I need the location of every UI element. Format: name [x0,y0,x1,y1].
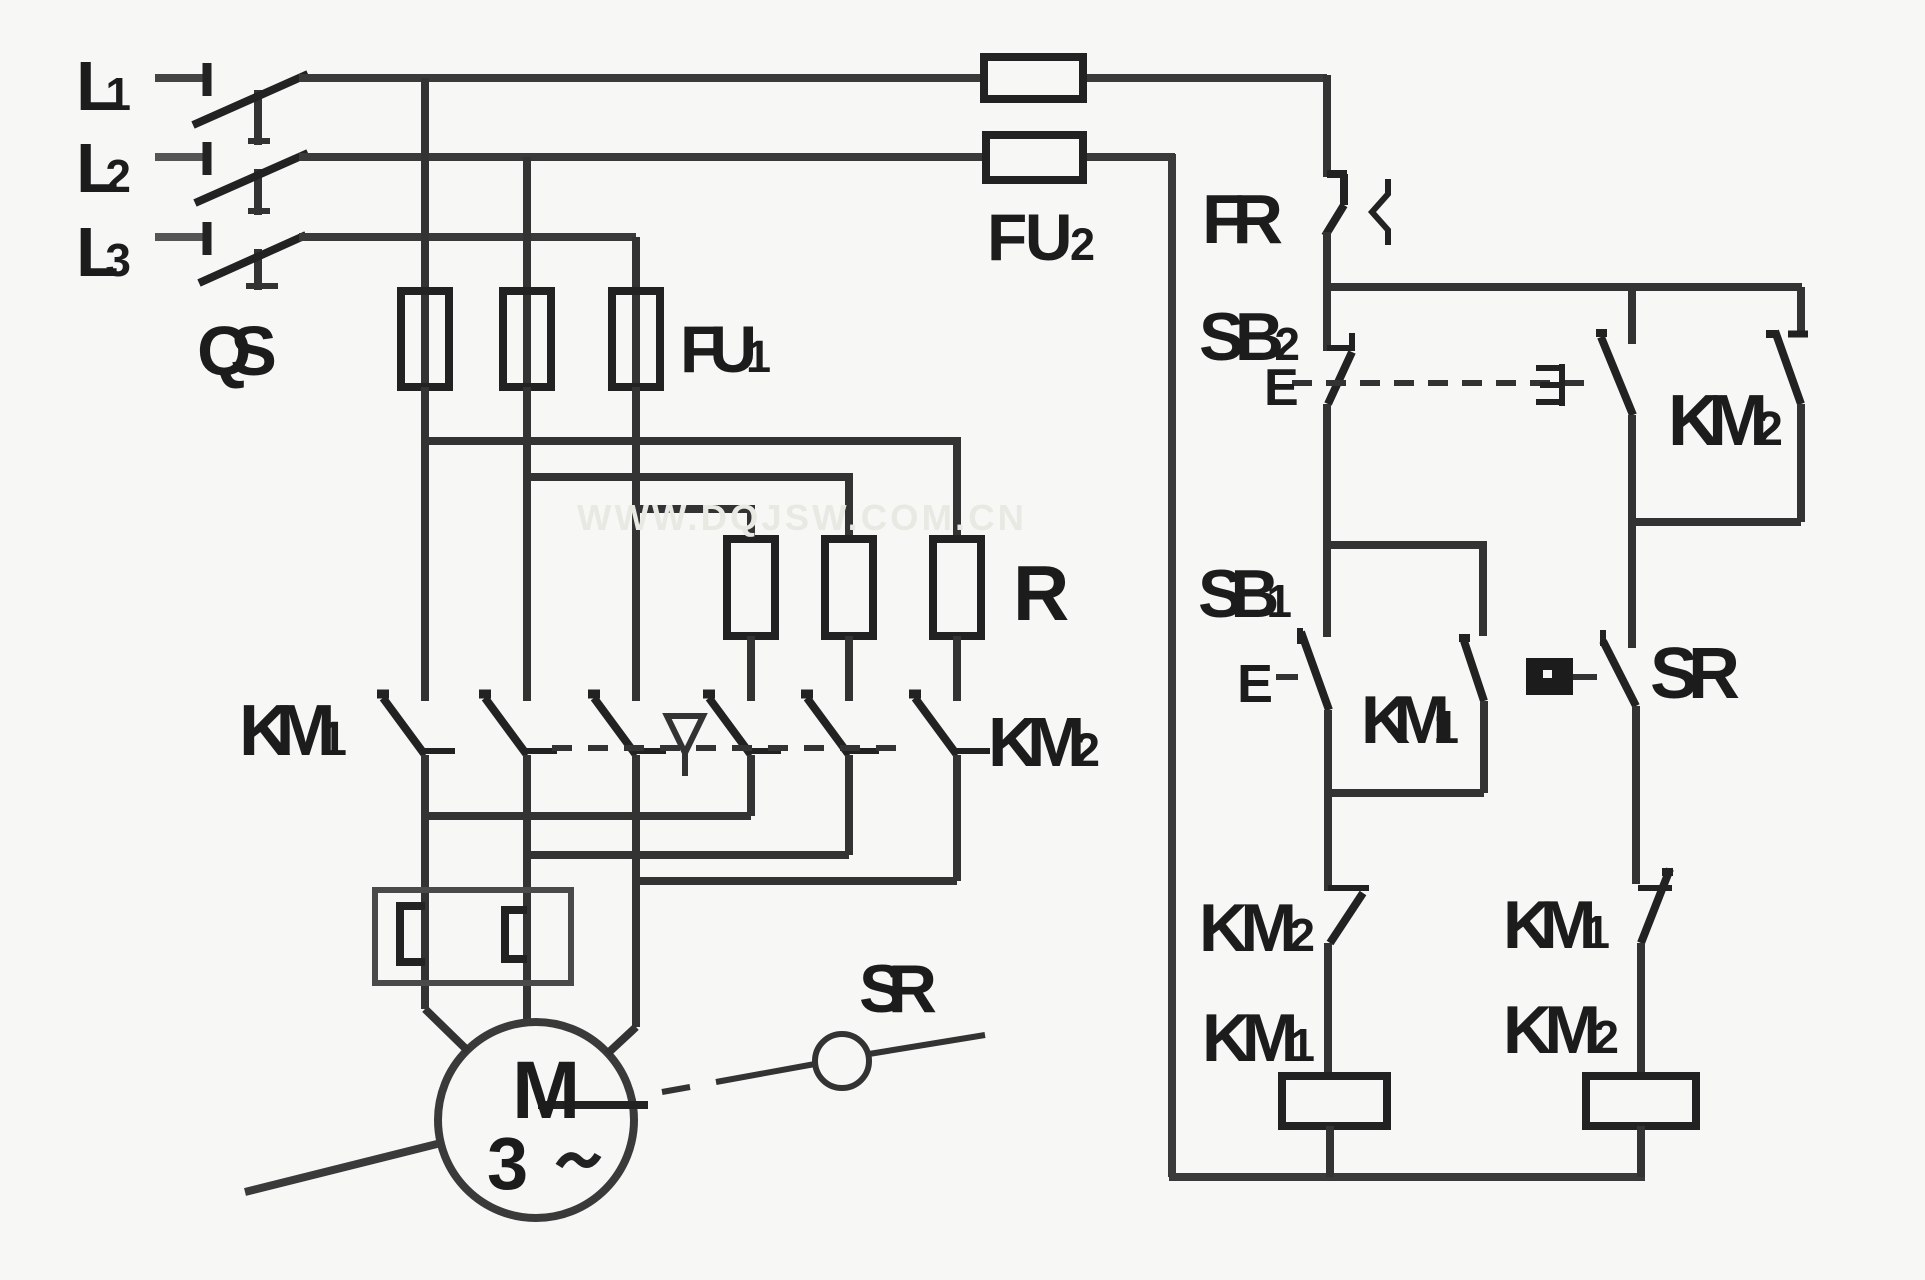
svg-text:FU2: FU2 [987,200,1095,274]
svg-text:R: R [1013,549,1069,637]
svg-text:KM2: KM2 [988,703,1100,781]
svg-text:SR: SR [859,951,937,1027]
svg-text:KM2: KM2 [1503,992,1619,1068]
svg-text:SB1: SB1 [1198,556,1292,632]
svg-text:QS: QS [197,312,277,390]
svg-text:KM2: KM2 [1668,381,1783,461]
svg-text:FU1: FU1 [680,312,771,386]
svg-text:KM1: KM1 [239,691,347,771]
svg-text:E: E [1264,359,1299,417]
svg-text:L2: L2 [76,129,131,207]
svg-text:KM2: KM2 [1199,890,1315,966]
svg-text:FR: FR [1202,180,1283,258]
svg-text:SR: SR [1650,634,1740,714]
svg-text:WWW.DQJSW.COM.CN: WWW.DQJSW.COM.CN [577,497,1027,538]
svg-text:KM1: KM1 [1503,887,1610,963]
svg-text:KM1: KM1 [1361,682,1459,758]
svg-text:KM1: KM1 [1202,1000,1315,1076]
svg-text:3: 3 [487,1122,528,1205]
svg-text:E: E [1237,654,1273,714]
svg-text:L1: L1 [76,47,131,125]
svg-text:L3: L3 [76,213,131,291]
